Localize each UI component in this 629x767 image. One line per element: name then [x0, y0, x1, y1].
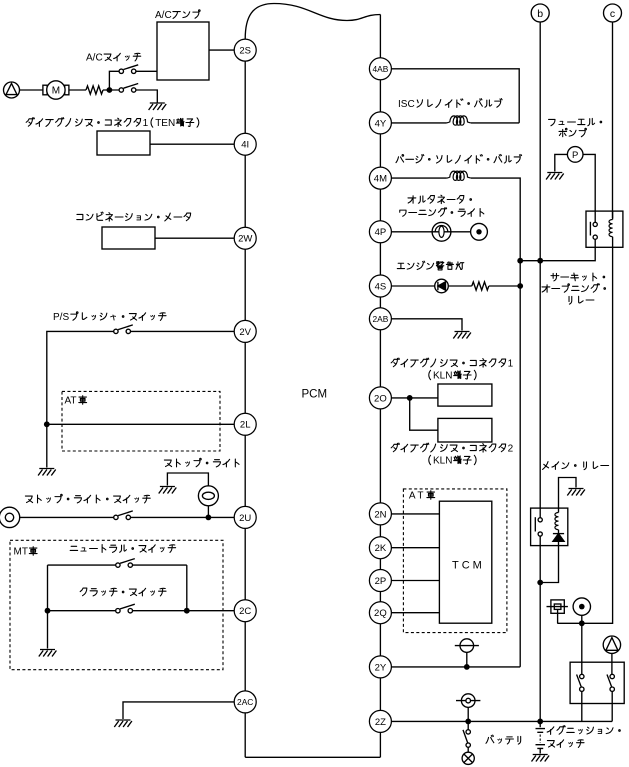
label AT (left) — [65, 396, 87, 407]
svg-text:PCM: PCM — [302, 389, 328, 401]
node main relay/b junction — [537, 580, 543, 586]
label row288 — [542, 284, 606, 293]
wire stub to 2Y line — [466, 652, 468, 667]
diagnosis connector 1 (TEN) box — [97, 131, 150, 155]
switch stop light — [114, 515, 118, 519]
svg-text:2: 2 — [508, 444, 514, 455]
node 2Q — [369, 602, 391, 624]
svg-text:TEN: TEN — [155, 118, 175, 129]
label row548 — [70, 545, 175, 553]
b line through box — [539, 508, 541, 545]
svg-text:4S: 4S — [375, 281, 387, 292]
svg-text:2V: 2V — [239, 327, 251, 338]
svg-text:2O: 2O — [374, 393, 387, 404]
ground (stop light) — [159, 487, 177, 494]
ground (MT) — [39, 650, 57, 657]
diode main relay — [553, 533, 564, 535]
label row122 — [549, 118, 602, 125]
svg-text:AT: AT — [65, 396, 77, 407]
ground (battery) — [532, 755, 550, 762]
switch (test lamp) — [467, 721, 469, 729]
label row499 — [25, 494, 150, 503]
label row465 — [543, 462, 609, 470]
svg-text:A/C: A/C — [86, 53, 103, 64]
wire pump to ground — [555, 154, 568, 171]
node b/2Z junction — [537, 719, 543, 725]
svg-text:1: 1 — [143, 118, 149, 129]
connector (2Y check) — [460, 639, 474, 653]
label row316 — [53, 312, 166, 323]
pump fuel pump — [567, 147, 583, 163]
node 2L branch — [44, 421, 50, 427]
node 2C — [234, 600, 256, 622]
node 2V — [234, 320, 256, 342]
label row57 — [86, 53, 141, 64]
wire 2O to box1 — [391, 397, 438, 399]
svg-text:4Y: 4Y — [375, 118, 387, 129]
relay main relay box — [531, 508, 568, 545]
node 4AB — [369, 58, 391, 80]
node 2AB — [369, 308, 391, 330]
svg-text:2Z: 2Z — [375, 717, 386, 728]
ground (2AC) — [114, 720, 132, 727]
label row460 — [429, 455, 476, 466]
node 2L — [234, 413, 256, 435]
wire 4M to coil — [391, 177, 446, 179]
node clutch left — [45, 608, 51, 614]
wire lamp to 2U line — [207, 506, 209, 518]
node 2Z — [369, 710, 391, 732]
svg-text:2P: 2P — [375, 576, 387, 587]
svg-text:2Y: 2Y — [375, 662, 387, 673]
wire 2K to TCM — [391, 547, 439, 549]
svg-text:2AB: 2AB — [372, 314, 388, 324]
wire 2V to switch — [130, 330, 234, 332]
node 4I — [234, 133, 256, 155]
svg-text:2AC: 2AC — [237, 697, 253, 707]
svg-text:P: P — [572, 150, 578, 161]
label row266 — [397, 261, 464, 270]
switch clutch — [116, 609, 120, 613]
switch ignition 1 — [580, 674, 584, 678]
LED engine warning lamp — [435, 279, 449, 293]
wire b line — [539, 22, 541, 721]
svg-text:4M: 4M — [374, 174, 387, 185]
wire resistor to A/C switch — [103, 89, 119, 91]
label row375 — [429, 370, 476, 381]
wire 4Y to coil — [391, 122, 446, 124]
AT (right) dashed box — [403, 489, 507, 633]
battery — [539, 721, 541, 727]
diagnosis connector 1 (KLN) box — [438, 384, 492, 406]
wire left vertical to ground — [47, 565, 49, 648]
A/C amplifier box — [157, 22, 209, 80]
node clutch right — [184, 608, 190, 614]
wire pump to relay contact — [583, 154, 595, 222]
node purge/relay junction — [517, 258, 523, 264]
ground (main relay) — [567, 489, 585, 496]
wire branch up — [109, 71, 119, 90]
label row133 — [559, 128, 586, 136]
ground (A/C switch) — [149, 103, 167, 110]
svg-text:ISC: ISC — [398, 99, 415, 110]
label AT (right) — [409, 491, 435, 502]
wire 2AB to ground — [391, 319, 462, 331]
motor M (A/C blower) — [43, 85, 47, 95]
node 2K — [369, 537, 391, 559]
inductor main relay coil — [555, 513, 559, 530]
wire PCM left bus — [244, 39, 246, 757]
wire coil to loop — [471, 122, 519, 124]
node c circle — [604, 4, 622, 22]
wire relay switch out — [520, 239, 595, 260]
connector (ignition feed) — [573, 598, 590, 615]
wire 2P to TCM — [391, 580, 439, 582]
svg-text:c: c — [610, 8, 615, 20]
label row212 — [400, 208, 484, 217]
node 2Z junction — [465, 719, 471, 725]
ground (fuel pump) — [546, 173, 564, 180]
inductor purge solenoid valve — [447, 171, 471, 180]
wire 2AC to ground — [123, 702, 234, 719]
wire clutch to 2C — [133, 610, 235, 612]
wire box to 2W — [155, 237, 234, 239]
node A/C switch junction — [107, 87, 113, 93]
wire 4S to LED — [391, 285, 435, 287]
label row103 — [398, 99, 502, 111]
svg-text:b: b — [537, 8, 543, 20]
wire compressor to motor — [20, 89, 43, 91]
wire LED to resistor — [448, 285, 472, 287]
wire stub to 2Z line — [467, 707, 469, 721]
node stop lamp junction — [206, 515, 212, 521]
svg-text:2L: 2L — [240, 420, 251, 431]
node 2AC — [234, 691, 256, 713]
wire motor to resistor — [69, 89, 86, 91]
label row199 — [408, 195, 472, 203]
node 2Y junction — [464, 664, 470, 670]
wire 2N to TCM — [391, 513, 439, 515]
label row217 — [77, 212, 191, 221]
label row159 — [396, 154, 522, 163]
wire switch to 2U — [130, 516, 234, 518]
label row300 — [569, 296, 594, 304]
wire box to 4I — [150, 143, 234, 145]
wire branch to box2 — [410, 398, 438, 430]
switch main relay contacts — [538, 518, 542, 522]
node 2Y — [369, 656, 391, 678]
label row730 — [547, 726, 620, 735]
label row363 — [391, 358, 513, 370]
wire purge to vertical — [471, 178, 520, 667]
svg-text:M: M — [52, 86, 60, 97]
wire stop light top to ground — [167, 473, 208, 486]
wire 4P to lamp/connector — [391, 231, 470, 233]
node 4P — [369, 221, 391, 243]
node b/relay junction — [537, 258, 543, 264]
node 4S junction — [517, 283, 523, 289]
wire relay coil down — [557, 247, 612, 623]
svg-text:2N: 2N — [374, 509, 386, 520]
wire lower switch to ground — [136, 90, 157, 103]
label row740 — [486, 735, 521, 744]
svg-text:A/C: A/C — [155, 10, 172, 21]
node 4M — [369, 167, 391, 189]
wire switch left down — [47, 331, 114, 467]
node 4Y — [369, 112, 391, 134]
svg-text:2K: 2K — [375, 543, 387, 554]
connector (2Z check) — [461, 694, 475, 708]
svg-text:MT: MT — [14, 547, 28, 558]
lamp test bulb — [467, 747, 469, 752]
wire to A/C amp box — [136, 70, 157, 72]
switch P/S pressure — [114, 329, 118, 333]
label row448 — [391, 443, 513, 455]
svg-text:2W: 2W — [238, 234, 252, 245]
svg-text:1: 1 — [508, 359, 514, 370]
node 2P — [369, 570, 391, 592]
node 2W — [234, 227, 256, 249]
label row14 — [155, 10, 200, 21]
TCM box — [439, 501, 491, 623]
relay circuit opening relay box — [586, 211, 623, 247]
switch A/C lower contact — [119, 88, 123, 92]
resistor (warning lamp) — [472, 282, 489, 290]
switch relay contacts — [593, 222, 597, 226]
wire PCM right bus — [379, 15, 381, 758]
lamp stop light — [198, 486, 218, 506]
wire 2Z line — [391, 720, 612, 722]
wire right vertical — [186, 565, 188, 611]
switch ignition 2 — [610, 674, 614, 678]
ground (2AB) — [453, 332, 471, 339]
wire neutral line — [48, 564, 116, 566]
node 2O branch — [407, 395, 413, 401]
wire PCM top wavy link — [245, 4, 380, 40]
wire PCM bottom link — [245, 756, 380, 758]
svg-text:2S: 2S — [239, 46, 251, 57]
compressor symbol (A/C) — [4, 82, 20, 98]
node 2O — [369, 387, 391, 409]
node ignition feed junction — [579, 620, 585, 626]
wire 2L line — [47, 423, 234, 425]
ground (P/S line) — [38, 469, 56, 476]
switch A/C upper contact — [119, 69, 123, 73]
fuse symbol — [551, 600, 564, 613]
svg-text:2C: 2C — [239, 606, 251, 617]
svg-text:2Q: 2Q — [374, 608, 387, 619]
wire connector to switch — [20, 516, 114, 518]
node 2S — [234, 39, 256, 61]
wire clutch line left — [48, 610, 116, 612]
compressor symbol (starter) — [603, 636, 620, 653]
wire 4AB loop — [391, 69, 519, 123]
label MT — [14, 547, 38, 558]
label row277 — [551, 273, 605, 281]
connector (stop light switch feed) — [0, 507, 20, 527]
label row463 — [164, 458, 239, 467]
wire A/C amp to 2S — [209, 49, 234, 51]
label row122 — [26, 118, 199, 130]
svg-text:4P: 4P — [375, 227, 387, 238]
ignition switch box — [570, 662, 624, 703]
wire main relay coil to ground — [559, 478, 577, 509]
diagnosis connector 2 (KLN) box — [438, 418, 492, 442]
svg-text:4I: 4I — [241, 140, 249, 151]
node 4S — [369, 275, 391, 297]
wire 2Q to TCM — [391, 612, 439, 614]
svg-text:AT: AT — [409, 491, 426, 502]
svg-text:TCM: TCM — [452, 560, 485, 572]
wire neutral right — [133, 564, 187, 566]
svg-text:P/S: P/S — [53, 312, 69, 323]
svg-text:KLN: KLN — [433, 456, 452, 467]
switch neutral — [116, 563, 120, 567]
node 2N — [369, 503, 391, 525]
AT (left) dashed box — [62, 391, 220, 451]
svg-text:2U: 2U — [239, 513, 251, 524]
label row592 — [80, 588, 166, 596]
MT dashed box — [10, 540, 223, 669]
label row743 — [547, 740, 584, 748]
svg-text:4AB: 4AB — [372, 64, 388, 74]
resistor (blower) — [86, 86, 103, 94]
inductor relay coil — [609, 220, 613, 237]
combination meter box — [102, 227, 155, 249]
wire c line to relay — [612, 22, 614, 218]
node b circle — [531, 4, 549, 22]
svg-text:KLN: KLN — [433, 371, 452, 382]
lamp alternator warning light — [432, 222, 451, 241]
wire resistor to node — [489, 285, 520, 287]
connector (alternator) — [471, 223, 488, 240]
wire main relay out — [540, 546, 558, 583]
inductor ISC solenoid valve — [447, 116, 471, 125]
wire 2Y line — [391, 666, 520, 668]
node 2U — [234, 506, 256, 528]
wire junction to ignition switch — [581, 623, 583, 674]
